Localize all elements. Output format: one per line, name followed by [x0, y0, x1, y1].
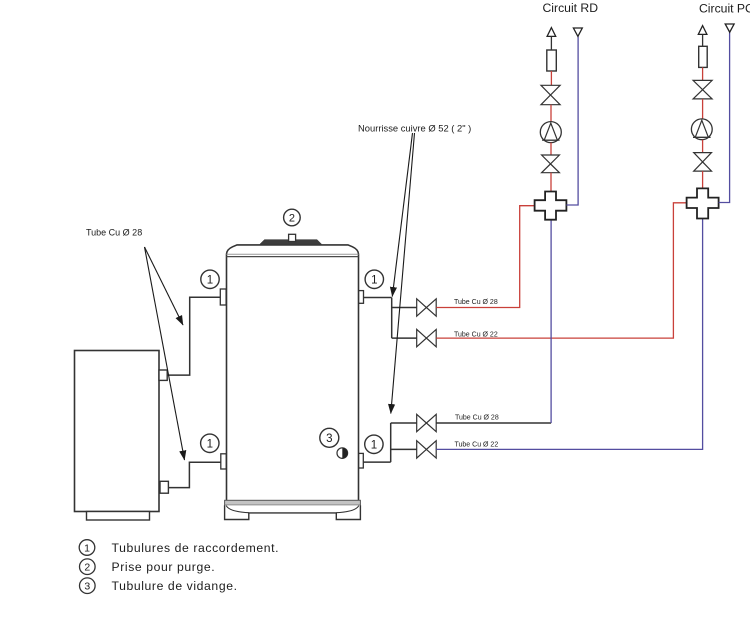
tank top nub: [289, 234, 296, 241]
pipe black V3 horizontal: [436, 422, 551, 424]
svg-text:Circuit PC: Circuit PC: [699, 1, 750, 15]
wire red PC pump to valve lower: [702, 140, 704, 153]
upper manifold vertical: [391, 298, 393, 339]
circuit PC cross fitting: [687, 188, 719, 218]
circuit RD cross fitting: [535, 192, 567, 220]
circuit PC return arrow: [725, 24, 734, 32]
svg-text:Nourrisse cuivre Ø 52 ( 2" ): Nourrisse cuivre Ø 52 ( 2" ): [358, 123, 471, 134]
branch stub to valve V1: [392, 307, 417, 309]
svg-text:Tubulures de raccordement.: Tubulures de raccordement.: [112, 541, 280, 555]
circuit PC supply arrow: [698, 26, 707, 47]
svg-text:Tube Cu Ø 22: Tube Cu Ø 22: [454, 332, 498, 339]
callout 1 lower-left: [201, 434, 219, 452]
svg-text:2: 2: [289, 213, 295, 225]
svg-text:1: 1: [207, 275, 213, 287]
valve V1: [417, 299, 437, 316]
svg-text:1: 1: [371, 440, 377, 452]
svg-text:1: 1: [371, 275, 377, 287]
tank lid (dark band on top): [260, 240, 322, 245]
pipe red V2 to circuit PC cross: [436, 203, 686, 338]
leader arrow to upper pipe: [145, 247, 184, 325]
circuit PC isolation rectangle: [699, 46, 708, 67]
svg-text:Tube Cu Ø 28: Tube Cu Ø 28: [454, 299, 498, 306]
tank skirt and feet: [225, 505, 361, 519]
circuit RD pump: [540, 122, 561, 143]
pipe blue V4 to circuit PC cross bottom: [436, 219, 702, 450]
pipe red V1 to circuit RD cross: [436, 206, 534, 308]
tank port lower-left: [221, 454, 226, 469]
wire red RD valve to cross: [550, 173, 552, 192]
pipe blue riser to circuit RD cross bottom: [550, 220, 552, 423]
circuit RD return arrow: [573, 28, 582, 36]
tank port upper-left: [220, 289, 226, 305]
wire red RD pump to valve lower: [550, 143, 552, 155]
circuit PC valve lower: [694, 153, 712, 172]
svg-text:Circuit RD: Circuit RD: [543, 1, 599, 15]
pipe tank upper-right port to manifold: [364, 297, 392, 299]
tank port lower-right: [359, 453, 364, 468]
circuit RD valve upper: [541, 85, 560, 104]
circuit RD isolation rectangle: [547, 50, 557, 71]
svg-text:3: 3: [84, 581, 90, 593]
wire red PC valve to pump: [702, 99, 704, 119]
circuit RD valve lower: [542, 155, 560, 173]
wire red PC rect to valve: [702, 67, 704, 80]
tank port upper-right: [359, 291, 364, 304]
boiler: [75, 351, 160, 521]
pipe boiler to tank lower: [169, 462, 221, 487]
lower manifold vertical: [390, 423, 392, 462]
svg-text:Tubulure de vidange.: Tubulure de vidange.: [112, 579, 238, 593]
leader arrow to lower manifold: [391, 133, 415, 414]
branch stub to valve V3: [391, 422, 417, 424]
leader arrow to upper manifold: [392, 133, 412, 297]
svg-text:Tube Cu Ø 28: Tube Cu Ø 28: [455, 415, 499, 422]
wire red PC valve to cross: [702, 171, 704, 188]
svg-text:Tube Cu Ø 22: Tube Cu Ø 22: [455, 442, 499, 449]
legend item 3: [80, 578, 238, 594]
valve V2: [417, 329, 437, 346]
boiler port lower: [160, 481, 168, 493]
svg-text:1: 1: [207, 439, 213, 451]
legend item 1: [79, 540, 279, 556]
pipe tank lower-right port to manifold: [363, 461, 390, 463]
pipe blue RD cross to return riser: [566, 36, 578, 205]
circuit PC pump: [691, 119, 712, 140]
callout 1 lower-right: [365, 435, 383, 453]
svg-text:3: 3: [326, 433, 332, 445]
leader arrow to lower pipe: [145, 247, 185, 460]
callout 1 upper-left: [201, 270, 219, 288]
svg-text:Tube Cu Ø 28: Tube Cu Ø 28: [86, 228, 142, 238]
circuit PC valve upper: [693, 80, 712, 99]
valve V4: [417, 441, 437, 458]
drain valve symbol: [337, 448, 348, 459]
pipe blue PC cross to return riser: [719, 32, 730, 202]
tank body: [227, 245, 359, 501]
svg-text:2: 2: [84, 562, 90, 574]
branch stub to valve V4: [391, 448, 417, 450]
wire red RD rect to valve: [550, 71, 552, 85]
valve V3: [417, 414, 437, 431]
branch stub to valve V2: [392, 337, 417, 339]
boiler port upper: [159, 370, 167, 380]
svg-text:Prise pour purge.: Prise pour purge.: [112, 560, 216, 574]
svg-text:1: 1: [84, 542, 90, 554]
legend item 2: [80, 559, 216, 575]
callout 1 upper-right: [365, 270, 383, 288]
circuit RD supply arrow: [547, 28, 556, 50]
callout 2 above tank: [284, 209, 301, 226]
pipe boiler to tank upper: [167, 297, 220, 375]
callout 3 drain: [320, 428, 339, 447]
tank bottom band: [225, 500, 361, 505]
wire red RD valve to pump: [550, 105, 552, 122]
